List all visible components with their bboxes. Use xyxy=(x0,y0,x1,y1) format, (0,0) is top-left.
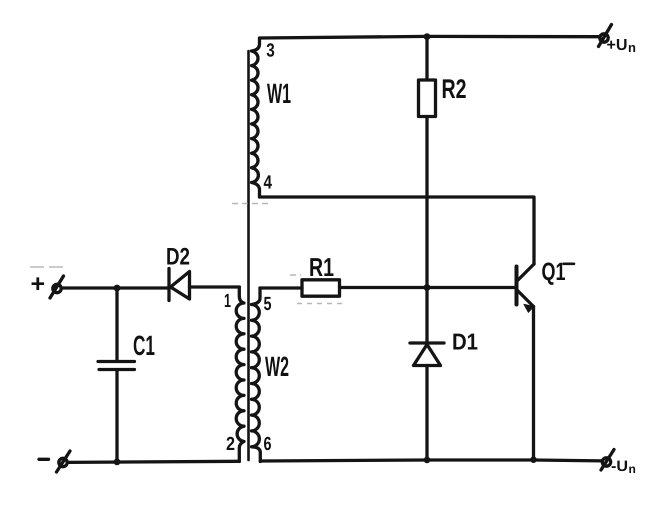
svg-text:Q1: Q1 xyxy=(542,258,566,286)
wire R2 top lead xyxy=(425,36,428,80)
svg-text:3: 3 xyxy=(266,41,275,62)
svg-text:-U: -U xyxy=(611,458,628,475)
wire node to D1 xyxy=(425,288,428,344)
scan artifact dashes xyxy=(30,204,343,304)
winding primary pins 1-2 xyxy=(236,287,244,462)
svg-text:W2: W2 xyxy=(265,351,289,382)
svg-text:n: n xyxy=(629,462,636,476)
resistor R1 xyxy=(302,280,340,296)
wire W1 pin4 to Q1 collector xyxy=(260,197,535,264)
wire D1 anode to bottom rail xyxy=(425,366,428,461)
diode D1 xyxy=(410,343,444,366)
node junction R1/base wire with D1 branch xyxy=(424,284,431,291)
wire bottom rail right segment xyxy=(260,460,602,461)
svg-text:D2: D2 xyxy=(166,244,190,271)
diode D2 xyxy=(169,269,190,301)
node junction D1 / bottom rail xyxy=(424,457,431,464)
winding W1 xyxy=(252,38,260,197)
node junction top rail / R2 xyxy=(424,33,431,40)
Q1 label serif stroke xyxy=(564,262,575,265)
wire W2 pin5 to R1 xyxy=(260,286,302,289)
capacitor C1 xyxy=(98,288,135,462)
node junction + wire / C1 xyxy=(114,285,121,292)
svg-text:R2: R2 xyxy=(442,74,467,104)
resistor R2 xyxy=(419,80,436,117)
wire R2 bottom lead down to node xyxy=(425,117,428,288)
winding W2 xyxy=(252,288,261,462)
wire bottom rail left segment xyxy=(68,461,239,462)
wire base: R1 to Q1 base xyxy=(340,286,515,289)
svg-text:+U: +U xyxy=(607,37,628,54)
node junction C1 / bottom rail xyxy=(114,459,121,466)
terminal - input xyxy=(57,451,71,472)
wire Q1 emitter to bottom rail xyxy=(532,307,535,461)
wire top rail from W1 pin3 to +Un xyxy=(260,36,600,38)
terminal + input xyxy=(50,276,64,298)
terminal -Un xyxy=(601,450,614,471)
svg-text:D1: D1 xyxy=(452,329,478,355)
svg-text:4: 4 xyxy=(264,173,273,194)
svg-text:2: 2 xyxy=(226,434,235,455)
transformer core xyxy=(247,51,250,460)
svg-text:W1: W1 xyxy=(267,78,291,109)
wire D2 to winding pin1 xyxy=(190,285,240,288)
wire + terminal to D2 xyxy=(63,286,168,289)
svg-text:R1: R1 xyxy=(309,252,334,282)
terminal +Un xyxy=(599,25,612,47)
svg-text:C1: C1 xyxy=(133,330,155,361)
svg-text:6: 6 xyxy=(264,434,272,455)
svg-text:1: 1 xyxy=(224,291,231,312)
svg-text:+: + xyxy=(31,270,46,298)
label - xyxy=(39,458,49,461)
transistor Q1 xyxy=(517,264,535,312)
svg-text:n: n xyxy=(628,40,636,55)
svg-text:5: 5 xyxy=(264,294,272,315)
node junction emitter / bottom rail xyxy=(530,456,537,463)
